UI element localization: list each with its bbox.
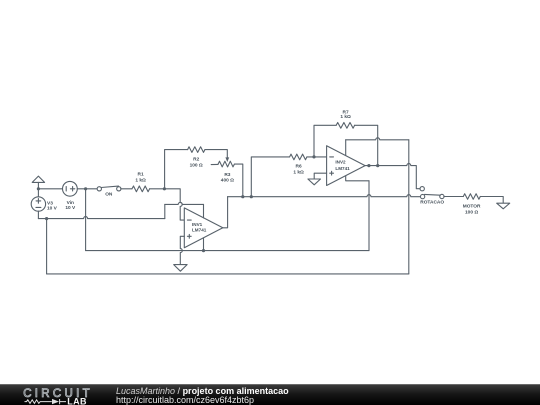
wire V3- rail (hops Vin+ drop) (38, 217, 164, 219)
node INV2 output terminal (367, 164, 370, 167)
wire V- rail (86, 250, 369, 252)
footer bar (0, 384, 540, 405)
svg-text:1 kΩ: 1 kΩ (135, 178, 146, 184)
CircuitLab logo (0, 385, 110, 405)
wire INV2 V- link (346, 176, 369, 181)
svg-text:MOTOR: MOTOR (463, 204, 481, 210)
wire R2 to R3 wiper arrow (205, 150, 227, 158)
svg-text:LAB: LAB (67, 396, 87, 405)
resistor R2 (188, 147, 205, 169)
resistor R1 (132, 171, 150, 191)
svg-text:100 Ω: 100 Ω (465, 209, 478, 215)
svg-text:400 Ω: 400 Ω (221, 178, 234, 184)
wire MOTOR to ground (480, 197, 503, 204)
node V3+ junction (37, 187, 40, 190)
wire R7 to INV2 output (hops V+ rail) (355, 125, 378, 165)
svg-text:R1: R1 (138, 171, 144, 177)
wire top rail V3+ to Vin (38, 188, 62, 190)
svg-text:INV2: INV2 (335, 160, 346, 165)
wire INV2 V+ pin (345, 140, 347, 156)
wire INV1 + input to ground (hops Vin- rail) (180, 236, 184, 264)
R3 wiper arrowhead (225, 157, 229, 162)
node R1/R2 junction (163, 187, 166, 190)
svg-text:ROTACAO: ROTACAO (420, 199, 444, 205)
op-amp U2 INV2 (327, 146, 366, 186)
wire R1 to inverting node (150, 188, 165, 190)
wire inverting node to INV1 - input (hops supply wire) (164, 189, 184, 220)
wire switch to MOTOR (444, 196, 464, 198)
wire switch to R1 (121, 188, 132, 190)
wire Vin+ drop to V- rail (hops V3- rail) (85, 189, 87, 251)
svg-text:V3: V3 (47, 200, 53, 206)
op-amp U1 INV1 (184, 208, 223, 248)
node INV2 - input junction (312, 155, 315, 158)
wire Vin+ to switch (77, 188, 97, 190)
wire INV1 V+ pin (203, 204, 205, 218)
wire INV1 output to rail (223, 197, 228, 228)
ground (INV1 + input) (174, 265, 187, 272)
node flag (supply node) (32, 176, 44, 197)
node R3 feedback junction (241, 195, 244, 198)
svg-text:10 V: 10 V (65, 205, 76, 211)
node Vin+ junction (84, 187, 87, 190)
svg-text:LM741: LM741 (192, 228, 207, 233)
svg-text:INV1: INV1 (192, 222, 203, 227)
resistor MOTOR (463, 194, 481, 216)
wire bottom rail (47, 273, 409, 275)
wire INV2 V+ rail (hops R7 drop) (346, 138, 409, 140)
wire V3 bottom lead (37, 211, 39, 218)
wire supply V3- to INV1 V+ (hops inverting wire) (165, 202, 204, 204)
switch ROTACAO (420, 187, 444, 206)
wire R6 to INV2 - input (307, 156, 327, 158)
switch ON (97, 186, 121, 197)
svg-text:100 Ω: 100 Ω (190, 162, 203, 168)
wire V- rail riser to INV2 (hops output rail) (368, 181, 370, 251)
svg-text:1 kΩ: 1 kΩ (293, 170, 304, 176)
ground (motor) (497, 203, 510, 209)
node V3- junction (45, 217, 48, 220)
wire R6 riser (251, 157, 289, 197)
wire INV1 V- pin (203, 238, 205, 251)
voltage source Vin (63, 181, 78, 211)
wire INV2 output (hops right riser) (365, 164, 420, 189)
node INV1 V- junction (202, 249, 205, 252)
svg-text:1 kΩ: 1 kΩ (340, 114, 351, 120)
node R6 junction (250, 195, 253, 198)
wire R3 to output rail (234, 164, 242, 197)
ground (INV2 + input) (308, 179, 321, 185)
svg-text:ON: ON (105, 191, 113, 197)
svg-text:R6: R6 (296, 164, 302, 170)
node R7 feedback junction (376, 164, 379, 167)
voltage source V3 (31, 197, 57, 212)
svg-text:Vin: Vin (67, 200, 74, 206)
wire output rail to ROTACAO (hops two risers) (228, 195, 421, 197)
svg-text:LM741: LM741 (335, 166, 350, 171)
wire V3- to bottom rail (46, 219, 48, 274)
wire R7 riser (314, 125, 336, 157)
resistor R6 (290, 154, 307, 175)
resistor R7 (336, 110, 354, 129)
wire supply riser (164, 204, 166, 218)
svg-text:R2: R2 (193, 157, 199, 163)
wire R2 riser (165, 150, 188, 189)
wire right riser to INV2 V+ rail (408, 140, 410, 274)
potentiometer R3 (211, 161, 234, 184)
svg-text:R3: R3 (224, 172, 230, 178)
wire INV2 + input to ground (314, 173, 326, 179)
svg-text:10 V: 10 V (47, 206, 58, 212)
